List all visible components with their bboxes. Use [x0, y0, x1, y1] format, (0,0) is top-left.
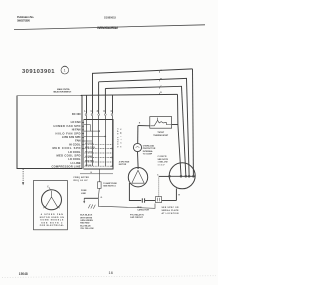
svg-text:115V: 115V — [158, 164, 166, 166]
svg-text:AT LOCATION: AT LOCATION — [162, 212, 180, 215]
svg-text:FUSE: FUSE — [81, 190, 87, 192]
svg-text:L1 LINE: L1 LINE — [70, 161, 80, 165]
svg-text:LO FAN: LO FAN — [85, 155, 93, 158]
svg-text:HI FAN: HI FAN — [72, 128, 81, 132]
svg-text:YEL YELLOW: YEL YELLOW — [80, 228, 93, 230]
svg-text:15048: 15048 — [19, 272, 28, 276]
svg-text:SEE NOTE 4: SEE NOTE 4 — [103, 185, 116, 188]
svg-text:MAIN CNTRL: MAIN CNTRL — [57, 88, 71, 91]
svg-text:RED RED: RED RED — [80, 223, 90, 225]
svg-text:LOW FAN SPD: LOW FAN SPD — [62, 135, 81, 139]
svg-text:CAPACITOR: CAPACITOR — [137, 209, 149, 212]
svg-text:3: 3 — [103, 111, 105, 113]
svg-text:SEE NOTE: SEE NOTE — [158, 159, 169, 161]
svg-text:C: C — [157, 175, 159, 177]
svg-text:R: R — [178, 194, 180, 196]
svg-text:PROTECTOR: PROTECTOR — [143, 148, 156, 150]
svg-text:BLU BLUE: BLU BLUE — [80, 225, 91, 227]
svg-text:FOR ELECTRICAL: FOR ELECTRICAL — [40, 224, 65, 227]
svg-text:INTERNAL: INTERNAL — [143, 150, 154, 153]
svg-text:4 SPD FAN: 4 SPD FAN — [119, 160, 130, 163]
svg-text:MED COOL SPD: MED COOL SPD — [53, 146, 81, 150]
svg-text:TSTAT: TSTAT — [157, 131, 164, 134]
svg-text:15 AMP FUSE: 15 AMP FUSE — [103, 182, 117, 185]
svg-text:LO COOL: LO COOL — [68, 157, 81, 161]
svg-text:MED FAN: MED FAN — [85, 160, 94, 163]
svg-text:HI FAN: HI FAN — [85, 164, 92, 167]
svg-text:MED COOL SPD: MED COOL SPD — [57, 154, 81, 158]
svg-text:S1080015: S1080015 — [104, 16, 117, 20]
svg-text:THERMOSTAT: THERMOSTAT — [153, 134, 169, 137]
svg-text:D: D — [160, 92, 162, 94]
svg-text:HI/LO FAN SPD: HI/LO FAN SPD — [56, 131, 81, 135]
svg-text:COMPRESSOR LINE: COMPRESSOR LINE — [52, 165, 81, 169]
svg-text:5995271820: 5995271820 — [17, 19, 30, 23]
svg-text:X: X — [47, 185, 49, 188]
svg-text:FAN: FAN — [75, 139, 80, 143]
svg-text:1 BELOW: 1 BELOW — [158, 162, 168, 164]
svg-text:LO FAN: LO FAN — [71, 120, 81, 124]
svg-text:MOTOR USED ON: MOTOR USED ON — [40, 217, 64, 219]
svg-text:TO COMP: TO COMP — [143, 154, 153, 156]
svg-text:LO COOL: LO COOL — [68, 150, 81, 154]
svg-text:BLK BLACK: BLK BLACK — [80, 214, 92, 217]
svg-text:16: 16 — [109, 270, 114, 275]
svg-text:PTC RELAY IN: PTC RELAY IN — [130, 213, 144, 216]
svg-text:RUN: RUN — [137, 207, 142, 209]
svg-text:SEE SPEC OR: SEE SPEC OR — [162, 207, 180, 209]
svg-text:SERIAL PLATE: SERIAL PLATE — [162, 209, 180, 212]
svg-text:HI COOL: HI COOL — [69, 142, 81, 146]
svg-text:LINK: LINK — [81, 193, 86, 195]
svg-text:CAP CIRCUIT: CAP CIRCUIT — [130, 216, 144, 219]
svg-text:SELECTOR SWITCH: SELECTOR SWITCH — [53, 92, 71, 94]
svg-text:FAN SPEED: FAN SPEED — [116, 129, 119, 148]
svg-text:SOME MODELS: SOME MODELS — [40, 220, 64, 222]
svg-text:HI COOL: HI COOL — [85, 152, 94, 154]
svg-text:S: S — [139, 122, 141, 124]
svg-text:REQ 60 HZ: REQ 60 HZ — [74, 180, 89, 182]
svg-text:WHT WHITE: WHT WHITE — [80, 217, 92, 219]
svg-text:MED COOL: MED COOL — [85, 147, 96, 149]
svg-text:LO COOL: LO COOL — [85, 143, 94, 145]
svg-text:SWITCH: SWITCH — [119, 129, 121, 148]
svg-text:309103901: 309103901 — [22, 69, 55, 75]
svg-text:G: G — [101, 197, 103, 199]
svg-text:FREQ NOTED: FREQ NOTED — [74, 177, 90, 179]
svg-text:4 SPEED FAN: 4 SPEED FAN — [41, 213, 63, 216]
svg-text:SEE NOTE 2: SEE NOTE 2 — [41, 222, 63, 224]
svg-text:G: G — [90, 172, 92, 174]
svg-text:OVERLOAD: OVERLOAD — [143, 144, 155, 147]
svg-text:1: 1 — [64, 69, 66, 73]
svg-text:WIRING DIAGRAM: WIRING DIAGRAM — [97, 26, 118, 30]
svg-text:GRN GREEN: GRN GREEN — [80, 220, 93, 222]
svg-text:DC ON: DC ON — [72, 112, 81, 116]
svg-text:COMPR: COMPR — [158, 156, 168, 158]
svg-text:MOTOR: MOTOR — [119, 164, 127, 166]
svg-text:HI/MED FAN SPD: HI/MED FAN SPD — [54, 124, 81, 128]
